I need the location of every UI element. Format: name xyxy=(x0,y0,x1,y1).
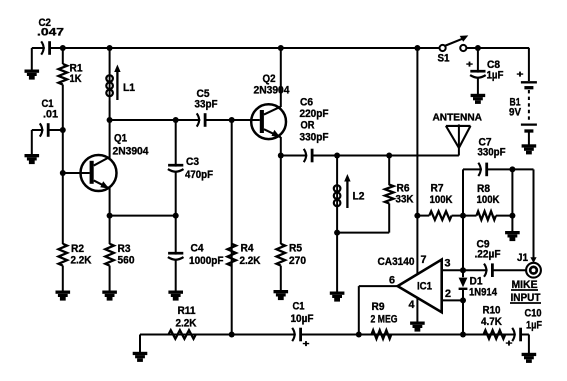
svg-text:6: 6 xyxy=(389,275,395,287)
svg-text:220pF: 220pF xyxy=(300,108,329,120)
svg-text:560: 560 xyxy=(118,255,135,267)
svg-text:33K: 33K xyxy=(396,194,414,206)
svg-text:4: 4 xyxy=(409,299,416,311)
svg-text:100K: 100K xyxy=(477,194,500,206)
svg-text:33pF: 33pF xyxy=(195,99,218,111)
svg-text:IC1: IC1 xyxy=(417,281,432,293)
svg-text:+: + xyxy=(517,69,525,80)
svg-text:R7: R7 xyxy=(431,183,444,195)
svg-text:1K: 1K xyxy=(70,73,82,85)
svg-text:270: 270 xyxy=(289,255,306,267)
svg-text:3: 3 xyxy=(445,257,451,269)
svg-text:S1: S1 xyxy=(438,53,450,65)
svg-text:7: 7 xyxy=(421,254,427,266)
svg-text:+: + xyxy=(506,338,514,349)
svg-text:1µF: 1µF xyxy=(487,70,504,82)
svg-text:J1: J1 xyxy=(517,252,528,264)
svg-text:9V: 9V xyxy=(509,107,522,119)
svg-text:ANTENNA: ANTENNA xyxy=(433,113,483,124)
svg-text:R9: R9 xyxy=(372,301,385,313)
svg-text:2 MEG: 2 MEG xyxy=(371,314,398,326)
svg-text:R4: R4 xyxy=(241,243,255,255)
svg-text:Q2: Q2 xyxy=(263,73,276,85)
svg-text:C1: C1 xyxy=(293,301,305,313)
svg-text:4.7K: 4.7K xyxy=(481,316,502,328)
svg-text:470pF: 470pF xyxy=(185,169,213,181)
svg-text:2: 2 xyxy=(445,288,451,300)
svg-text:.01: .01 xyxy=(43,109,58,121)
svg-text:R3: R3 xyxy=(118,243,131,255)
svg-text:2.2K: 2.2K xyxy=(71,255,92,267)
svg-text:OR: OR xyxy=(301,120,315,132)
svg-text:R5: R5 xyxy=(289,243,302,255)
svg-text:1000pF: 1000pF xyxy=(189,255,224,267)
svg-text:2.2K: 2.2K xyxy=(240,255,261,267)
svg-text:330pF: 330pF xyxy=(478,147,506,159)
svg-text:2N3904: 2N3904 xyxy=(113,146,150,158)
svg-text:+: + xyxy=(303,339,311,350)
svg-text:1N914: 1N914 xyxy=(469,287,498,299)
svg-text:R10: R10 xyxy=(483,305,501,317)
svg-text:C10: C10 xyxy=(525,308,542,320)
svg-text:C6: C6 xyxy=(300,97,313,109)
svg-text:2N3904: 2N3904 xyxy=(254,85,291,97)
svg-text:2.2K: 2.2K xyxy=(176,318,197,330)
svg-text:330pF: 330pF xyxy=(300,132,329,144)
svg-text:L2: L2 xyxy=(353,191,365,203)
svg-text:.22µF: .22µF xyxy=(475,249,501,261)
svg-text:1µF: 1µF xyxy=(526,320,542,332)
svg-text:+: + xyxy=(466,59,474,70)
svg-text:R11: R11 xyxy=(178,305,196,317)
svg-text:C4: C4 xyxy=(191,243,205,255)
svg-text:.047: .047 xyxy=(37,27,64,39)
svg-text:C3: C3 xyxy=(186,156,199,168)
svg-text:R2: R2 xyxy=(71,243,84,255)
svg-text:10µF: 10µF xyxy=(291,313,314,325)
svg-text:L1: L1 xyxy=(123,82,135,94)
svg-text:CA3140: CA3140 xyxy=(378,256,415,268)
svg-text:100K: 100K xyxy=(430,194,453,206)
svg-text:Q1: Q1 xyxy=(114,133,127,145)
